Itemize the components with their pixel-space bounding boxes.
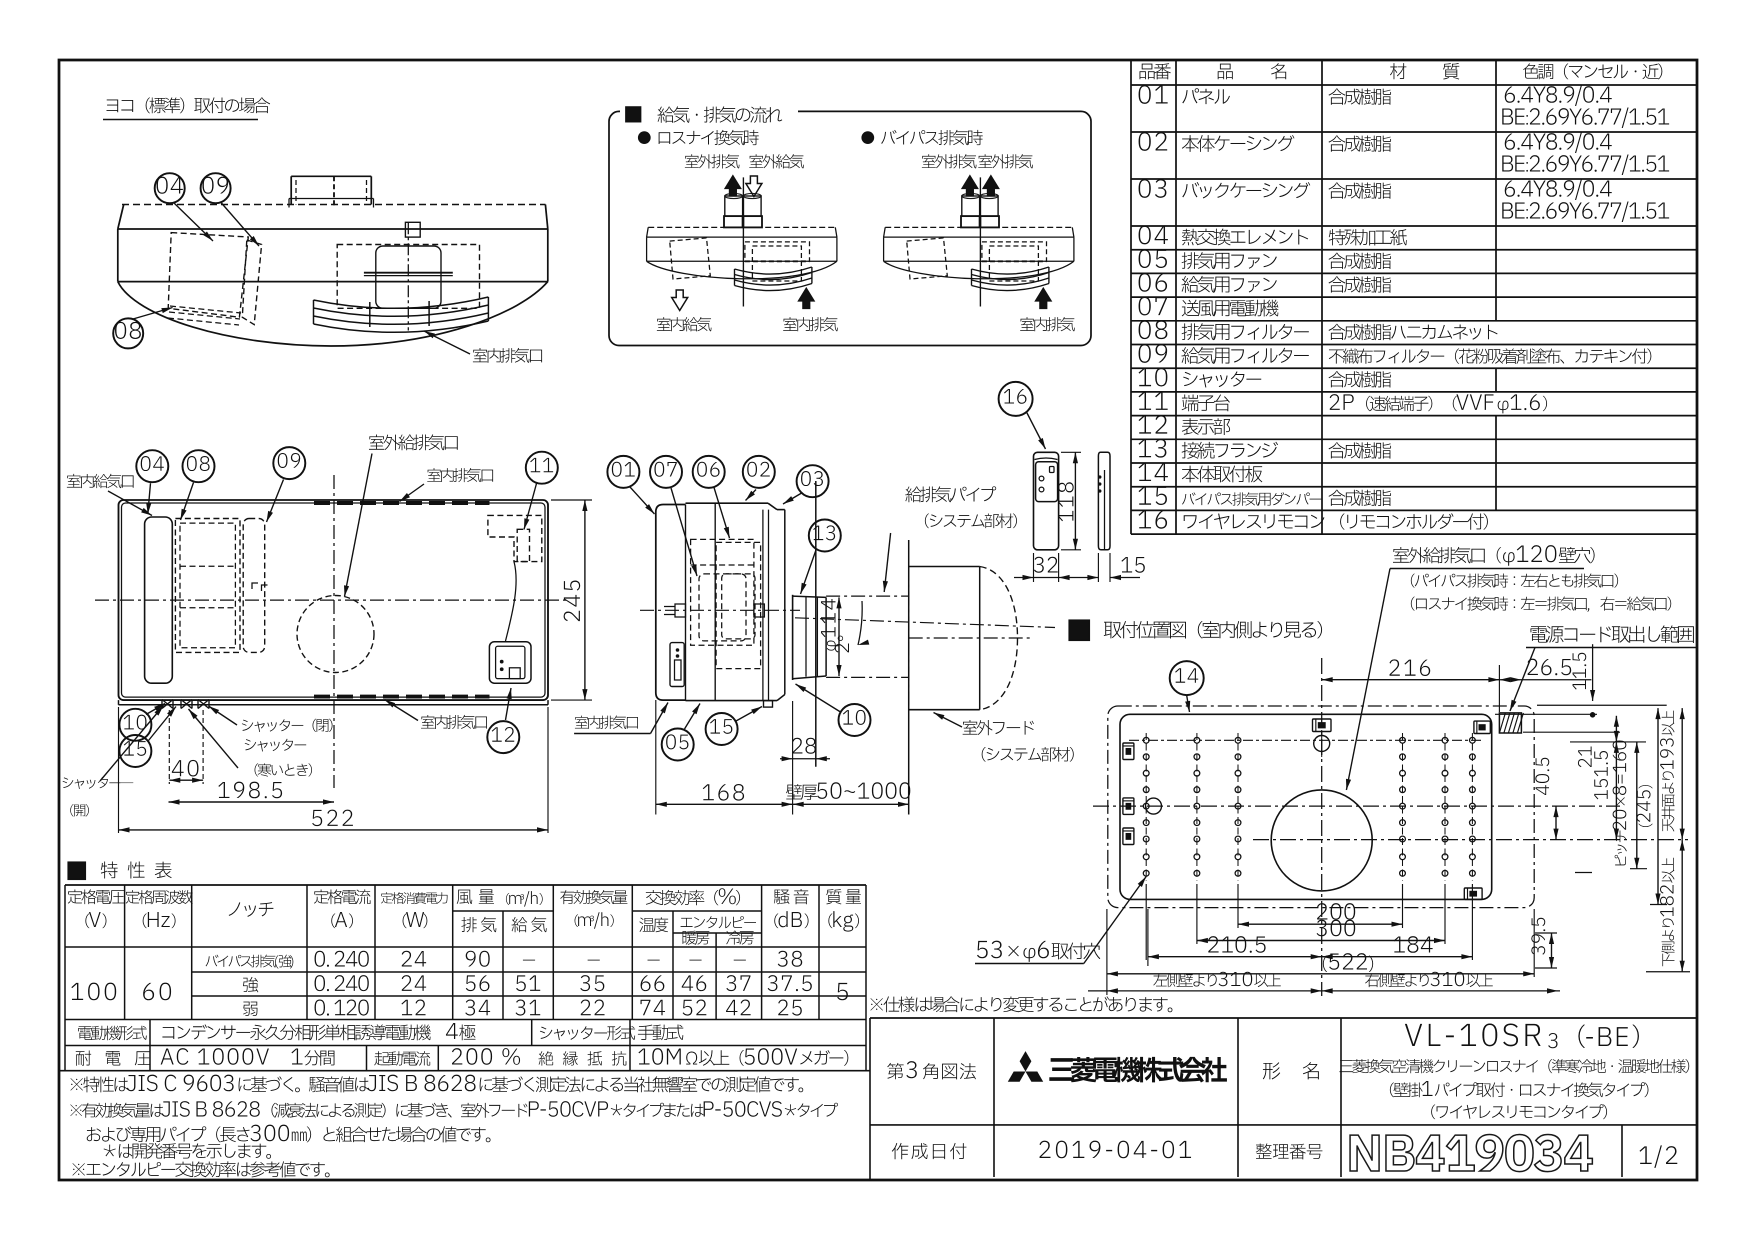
remote side view (1098, 452, 1110, 550)
flange and pipe socket (792, 595, 794, 680)
dim 216 (1322, 679, 1500, 681)
dim wall thickness (793, 803, 909, 805)
labels outdoor exhaust/supply unit1 (685, 154, 740, 168)
label shutter closed (242, 719, 333, 732)
page number (1639, 1145, 1677, 1167)
dim 151.5 (1615, 742, 1617, 840)
side panel 01 (656, 505, 686, 701)
exhaust fan dashed box (337, 245, 479, 309)
balloon 10 front (119, 709, 151, 741)
label outdoor hood (963, 720, 1034, 735)
balloon 16 (999, 382, 1033, 416)
balloon 04 front (136, 450, 168, 482)
mitsubishi three-diamond logo (1020, 1051, 1032, 1071)
dim 40.5 (1490, 805, 1620, 807)
mini unit body (885, 226, 1072, 228)
left center hole (1146, 798, 1162, 814)
arrow up filled unit1 (725, 176, 741, 197)
mini louver (972, 267, 1049, 274)
dim phi114 (838, 597, 840, 676)
notes text (70, 1075, 803, 1093)
heat exchange element 04 dashed (168, 233, 248, 318)
leader 01 (630, 487, 655, 514)
balloon 15 side (706, 713, 738, 745)
center horizontal line (1093, 805, 1620, 807)
arrow up filled unit2 right (983, 176, 999, 197)
leader 15 (149, 707, 177, 741)
mini pipes (725, 196, 743, 216)
mini unit body (648, 226, 835, 228)
dim (245) (1657, 708, 1659, 904)
balloon 05 (662, 729, 694, 761)
flow box title square (626, 107, 641, 122)
bottom ref line right (1646, 971, 1690, 973)
characteristics data (71, 983, 116, 1001)
balloon 04 (155, 173, 185, 203)
balloon 03 (797, 465, 829, 497)
labels outdoor exhaust unit2 (922, 154, 977, 168)
model name label (1263, 1062, 1280, 1079)
leader 04 (148, 483, 151, 514)
dim ceiling 193 (1681, 708, 1683, 840)
voltage row (76, 1051, 150, 1066)
arrow up filled indoor exhaust unit2 (1035, 288, 1051, 309)
leader outdoor port to circle (1346, 569, 1390, 791)
mini fan dashed (745, 242, 810, 261)
mini center line (979, 177, 981, 306)
model description lines (1339, 1059, 1689, 1073)
motor axis (640, 609, 800, 611)
mini element dashed (670, 238, 711, 279)
side body outline (686, 502, 769, 504)
center vertical line (1321, 658, 1323, 996)
arrow down hollow indoor supply (672, 290, 688, 311)
fan center line (407, 222, 409, 330)
element 04 dashed rects (175, 519, 240, 653)
leader 05 (685, 704, 701, 730)
label shutter cold (245, 739, 306, 752)
leader 06 (714, 488, 730, 539)
label indoor exhaust right side (575, 715, 638, 729)
long pipe dash-dot (826, 595, 909, 597)
dim 39.5 (1535, 932, 1557, 934)
characteristics table grid (65, 884, 866, 886)
dim 11.5 (1592, 644, 1594, 701)
power cord hatch box (1499, 713, 1521, 733)
cable curve 11 to 12 (506, 562, 517, 641)
remote front view (1034, 452, 1059, 550)
indoor supply grille (145, 517, 173, 683)
flow box title (658, 106, 783, 123)
dim 40 (169, 779, 203, 781)
fan 05 dashed (691, 539, 754, 645)
dim 198.5 (169, 801, 335, 803)
characteristics header text (68, 889, 124, 904)
dim right wall 310 (1322, 990, 1560, 992)
dim 118 (1061, 451, 1081, 453)
leader 10 (146, 704, 165, 715)
small clip marks (252, 583, 258, 589)
mini louver (735, 267, 812, 274)
indoor exhaust slot bottom dashed (314, 695, 490, 699)
leader 16 (1027, 412, 1046, 449)
balloon 09 (201, 173, 231, 203)
leader 12 (506, 688, 512, 720)
balloon 07 (650, 456, 682, 488)
dim 168 (655, 700, 657, 815)
arrow up filled indoor exhaust unit1 (798, 288, 814, 309)
dim 21 (1615, 716, 1617, 742)
leader 04 to element (174, 203, 213, 241)
motor shaft rects (675, 604, 686, 617)
label indoor exhaust bottom (421, 715, 487, 729)
label 53 phi6 holes (977, 941, 1100, 962)
dim (522) (1107, 973, 1534, 975)
mitsubishi electric company text (1049, 1057, 1227, 1083)
element bottom strips dashed (170, 306, 241, 313)
mini center line (742, 177, 744, 306)
dim left wall 310 (1088, 990, 1322, 992)
center lines front view (95, 599, 570, 601)
first hole row ext (1570, 741, 1646, 743)
arrow down hollow unit1 (746, 176, 762, 197)
pipe axis (795, 618, 1055, 628)
dashed extension shutters (168, 710, 170, 784)
title block grid (870, 1017, 1697, 1019)
spec change note (870, 996, 1172, 1012)
hole center horizontal line (1253, 839, 1688, 841)
remote buttons panel (1036, 462, 1058, 502)
dim 15 (1097, 553, 1099, 582)
label pipe system (905, 486, 996, 502)
mini fan dashed (982, 242, 1047, 261)
dim pitch 160 (1636, 742, 1638, 869)
leader 03 (783, 493, 803, 505)
dim 28 (780, 758, 830, 760)
mini element dashed (907, 238, 948, 279)
plate top ext (1495, 713, 1597, 715)
bullet bypass mode (862, 132, 874, 144)
arrow up filled unit2 left (962, 176, 978, 197)
balloon 10 side (839, 704, 871, 736)
top center hole (1314, 736, 1330, 752)
leader 10 side (796, 684, 841, 712)
outdoor port dashed circle (297, 596, 374, 673)
label indoor supply port (67, 474, 134, 488)
balloon 02 (743, 456, 775, 488)
parts table headers (1140, 63, 1171, 79)
filter 09 dashed (243, 519, 265, 653)
date label (892, 1143, 967, 1159)
motor type row (78, 1026, 147, 1041)
air flow box (609, 111, 1091, 345)
leader 09 (267, 480, 284, 523)
date value (1039, 1141, 1191, 1159)
dim 245 right (551, 499, 592, 501)
dim 210.5 and 184 (1147, 909, 1149, 966)
mount unit outline dash-dot (1108, 706, 1534, 908)
dim bottom 182 (1681, 840, 1683, 972)
parts table grid (1131, 59, 1697, 61)
dim 200 (1238, 923, 1403, 925)
hood outline (909, 566, 980, 568)
headline mounting position (1069, 620, 1090, 641)
label shutter open (63, 777, 134, 789)
label indoor exhaust top (427, 468, 493, 482)
indoor exhaust label top view (473, 348, 542, 363)
shutter marks at bottom (162, 700, 173, 709)
label power cord range (1530, 625, 1693, 643)
label outdoor port hole (1393, 545, 1595, 566)
title yoko mounting case (106, 97, 270, 113)
supply filter 09 dashed (242, 240, 261, 325)
hole column extensions (1237, 884, 1239, 928)
leader 11 (524, 484, 537, 530)
leader 08 to element corner (133, 308, 173, 320)
leader power cord (1510, 648, 1535, 712)
intake fan 06 dashed rects (716, 542, 761, 668)
leader 15 side (736, 707, 762, 722)
dim 26.5 (1499, 679, 1591, 681)
dim 522 (119, 829, 549, 831)
leader 07 (671, 488, 697, 576)
document number label (1256, 1143, 1323, 1159)
hatch bottom ext (1523, 731, 1620, 733)
top edge ref line right (1537, 704, 1667, 706)
wall hole circle phi120 (1271, 790, 1372, 891)
unit body top-left view (122, 204, 546, 206)
leader 14 (1187, 696, 1190, 713)
louver grille curved slats (314, 297, 489, 308)
angle 2 deg (858, 601, 862, 645)
top hole row line (1129, 739, 1483, 741)
labels indoor unit1 (657, 317, 712, 331)
model number big (1405, 1023, 1541, 1046)
balloon 08 (113, 318, 143, 348)
dim 300 (1197, 940, 1445, 942)
balloon 12 front (487, 721, 519, 753)
duct stub on top of unit (291, 175, 371, 177)
leader 08 (181, 483, 194, 521)
balloon 13 (809, 520, 841, 552)
document number value outline (1350, 1134, 1592, 1171)
display 12 box (489, 642, 531, 684)
balloon 08 front (183, 450, 215, 482)
mounting tabs (1313, 719, 1332, 732)
leader 02 (746, 490, 757, 501)
dim 32 (1033, 553, 1035, 582)
third angle projection label (887, 1061, 976, 1079)
characteristics headline (68, 862, 86, 880)
front view outer panel (119, 500, 549, 700)
damper foot 15 (764, 701, 773, 708)
hole columns (1145, 733, 1147, 881)
motor mount small rect (405, 222, 420, 237)
mount plate outline (1120, 714, 1492, 899)
mini pipes (962, 196, 980, 216)
front view body bottom line (119, 704, 549, 706)
balloon 14 (1170, 661, 1204, 695)
indoor exhaust slot top dashed (314, 501, 490, 505)
wall lines (815, 481, 817, 767)
hood axis (909, 637, 1030, 639)
parts table rows text (1139, 85, 1168, 104)
balloon 11 front (526, 452, 558, 484)
balloon 09 front (273, 447, 305, 479)
notes box right edge (869, 1018, 871, 1181)
balloon 06 (693, 456, 725, 488)
fan horizontal bar (364, 272, 453, 274)
label indoor exhaust unit2 (1020, 317, 1075, 331)
leader 13 (801, 550, 817, 594)
terminal block 11 dashed outline (488, 515, 542, 561)
bullet lossnay mode (639, 132, 651, 144)
balloon 15 front (119, 735, 151, 767)
fan scroll inner (376, 246, 441, 308)
leader 09 to filter (221, 203, 259, 247)
display on panel side (670, 643, 684, 687)
balloon 01 (607, 456, 639, 488)
label outdoor port (369, 434, 458, 450)
